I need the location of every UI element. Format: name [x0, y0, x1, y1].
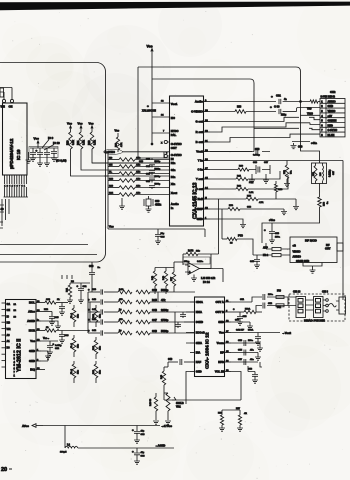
resistor R20 pull-up [67, 122, 75, 150]
left edge stub marks [0, 199, 9, 228]
svg-text:Audio: Audio [195, 100, 203, 104]
wire G out to CN2 [210, 117, 320, 121]
capacitor C31 [271, 94, 310, 105]
capacitor C70 [30, 148, 58, 161]
IC13 pin bubbles [161, 140, 170, 157]
svg-text:Gin: Gin [171, 168, 176, 172]
svg-text:C out: C out [196, 187, 203, 191]
wire opamp out down [222, 269, 224, 283]
svg-text:(IC 9,10): (IC 9,10) [56, 159, 67, 163]
vcc row wire C22 [41, 338, 62, 355]
headphone jack spring [328, 297, 345, 314]
wire audio down x218 [218, 199, 220, 254]
cap C49 bottom [168, 358, 190, 367]
svg-text:C-SYNC: C-SYNC [105, 150, 115, 154]
half pin network [210, 181, 299, 210]
svg-text:RF: RF [326, 243, 330, 247]
capacitor C33 top [210, 148, 270, 157]
C75 cap [233, 308, 247, 325]
svg-text:VR1: VR1 [176, 406, 181, 409]
svg-text:500A: 500A [248, 329, 254, 332]
svg-text:2700p: 2700p [161, 318, 169, 322]
label AVcc left [22, 424, 43, 428]
svg-text:4MHz: 4MHz [155, 204, 162, 207]
capacitor C36 bottom [132, 426, 145, 444]
svg-text:GND: GND [29, 349, 35, 353]
svg-text:NFB: NFB [218, 360, 224, 364]
video encoder IC13 CXA-1145 body [170, 96, 204, 226]
svg-text:PAL: PAL [171, 133, 177, 137]
resistor R27 ladder [108, 170, 170, 175]
svg-text:CXA- 1034 IC 12: CXA- 1034 IC 12 [205, 332, 211, 369]
svg-text:+41a: +41a [311, 141, 317, 145]
svg-text:VOL IN: VOL IN [215, 370, 224, 374]
gnd rows wire [41, 351, 51, 361]
svg-text:+: + [189, 271, 191, 275]
shd row [231, 320, 253, 330]
svg-text:AGND: AGND [27, 319, 35, 323]
IC11 right pin labels [27, 301, 40, 372]
resistor R49 [160, 367, 168, 393]
op-amp U14 LM358 triangle [183, 254, 223, 275]
crystal label XAL [142, 104, 156, 113]
svg-text:RF MOD: RF MOD [305, 239, 318, 243]
resistor R54 row MOR [41, 327, 88, 343]
resistor SL-1 vertical [71, 335, 80, 357]
svg-text:GND: GND [196, 370, 202, 374]
svg-text:XAL28CON: XAL28CON [142, 109, 156, 113]
label Vcc decoupling [34, 137, 40, 149]
svg-text:GND: GND [197, 217, 203, 221]
svg-text:R45: R45 [152, 298, 157, 302]
label (IC 9,10) [56, 159, 67, 163]
svg-text:C-VIDEO: C-VIDEO [191, 110, 203, 114]
IC11 left pin stubs [2, 303, 6, 367]
resistor R21 pull-up [77, 122, 85, 150]
wire R out to CN2 [210, 123, 320, 132]
irq row [41, 369, 45, 371]
svg-text:CN 16: CN 16 [293, 290, 301, 294]
wire avcc line [43, 424, 172, 428]
wire pull-up R22 down [92, 149, 170, 163]
label HEAD PHONE [304, 319, 325, 323]
svg-text:AUDIO: AUDIO [328, 100, 336, 103]
svg-text:5600p: 5600p [155, 184, 161, 186]
svg-text:R58: R58 [237, 107, 242, 109]
IC10 top pin labels [1, 105, 13, 109]
ladder caps C33-C36 [146, 158, 161, 189]
capacitor C65 at RF [250, 255, 260, 268]
nf row [231, 349, 261, 361]
wire below box [0, 0, 1, 1]
headphone connector block 1 [288, 297, 306, 318]
svg-text:AVcc: AVcc [22, 424, 29, 428]
svg-text:3.3k: 3.3k [83, 140, 86, 145]
label LM358 [201, 276, 216, 284]
capacitor C73 [51, 148, 57, 161]
svg-text:PTC: PTC [238, 235, 243, 238]
svg-text:IC 9: IC 9 [48, 136, 54, 140]
resistor R42 [151, 268, 157, 295]
label R46 vertical [149, 393, 159, 424]
svg-text:Vcc: Vcc [67, 122, 72, 126]
svg-text:100µH: 100µH [60, 452, 67, 454]
svg-text:WE: WE [1, 105, 6, 109]
mixing row C42 [88, 308, 195, 315]
scan artifact top black bar [0, 2, 350, 11]
svg-text:C40: C40 [152, 288, 157, 292]
crystal C29 4MHz [144, 196, 162, 212]
svg-text:C-SYNC: C-SYNC [328, 129, 338, 132]
capacitor C72 [44, 148, 50, 166]
svg-text:4R: 4R [244, 412, 247, 415]
svg-text:220µ: 220µ [281, 115, 287, 117]
resistor R26 ladder [108, 163, 170, 168]
resistor R73 [262, 184, 329, 244]
wire ic12 gnd down [186, 372, 190, 405]
trap resistors row2 [210, 171, 280, 184]
svg-text:560A: 560A [245, 308, 251, 311]
RAM IC10 uPD4264AV-12 body [3, 103, 28, 175]
svg-text:47k: 47k [161, 298, 166, 302]
svg-text:3GND: 3GND [196, 320, 203, 324]
RF MOD ground [303, 263, 322, 274]
filter box R72 L30 [312, 163, 327, 184]
capacitor C71 [36, 148, 44, 166]
svg-text:RL-2: RL-2 [71, 368, 73, 374]
svg-text:-: - [189, 264, 190, 268]
IC11 top stubs [62, 275, 72, 279]
trap cluster components [210, 162, 270, 183]
resistor R29 ladder [108, 184, 170, 189]
capacitor C60 [291, 142, 311, 149]
svg-text:INA: INA [196, 351, 201, 355]
agnd row wire [41, 321, 61, 329]
svg-text:SINA: SINA [196, 341, 202, 345]
mixing row R44 [88, 318, 195, 325]
svg-text:C47: C47 [152, 318, 157, 322]
svg-text:C49: C49 [168, 358, 173, 361]
mix caps verticals [175, 312, 186, 328]
resistor R34 vertical [92, 337, 102, 359]
IC10 bottom pins row2 [4, 187, 29, 197]
resistor R56 bottom [218, 410, 240, 431]
svg-text:BLUE: BLUE [328, 134, 335, 137]
svg-text:3.3k: 3.3k [72, 140, 75, 145]
svg-text:ANse: ANse [28, 310, 35, 314]
gnd pin1 wire [210, 219, 246, 228]
svg-text:Vcc: Vcc [115, 129, 120, 133]
svg-text:→AGND: →AGND [155, 444, 165, 448]
IC13 left pin labels [171, 102, 182, 210]
page number [1, 467, 12, 473]
svg-text:OE: OE [7, 309, 11, 312]
svg-text:Bin: Bin [171, 175, 176, 179]
svg-text:100a: 100a [268, 294, 274, 296]
wire B out to CN2 [210, 134, 320, 142]
resistor R77 left [171, 262, 183, 292]
IC12 right pin labels [215, 300, 229, 374]
svg-text:→Vcc2: →Vcc2 [282, 331, 291, 335]
svg-text:Vcc→: Vcc→ [43, 338, 49, 340]
resistor R22 pull-up [88, 122, 96, 150]
label IC-9 pointer [42, 136, 54, 148]
capacitor C40 left [89, 262, 101, 292]
ground left of cluster [26, 152, 32, 163]
svg-text:IRQ: IRQ [30, 368, 35, 372]
wire csync to CN2 [164, 128, 320, 158]
svg-text:MOL: MOL [29, 301, 35, 305]
resistor R24 ladder [108, 191, 170, 196]
label Anse row [41, 309, 59, 325]
resistor R71 on Y line [284, 161, 293, 187]
svg-text:Xin: Xin [171, 182, 176, 186]
ferrite FB2 video [263, 243, 290, 251]
label +Vcc branch [264, 219, 281, 243]
IC13 right pin stubs [204, 102, 211, 220]
wire mid right [204, 229, 206, 237]
svg-text:3.3k: 3.3k [94, 140, 97, 145]
svg-text:GND: GND [328, 105, 334, 108]
svg-text:Vcc: Vcc [147, 45, 153, 49]
svg-text:R2B: R2B [278, 189, 283, 191]
svg-text:Vcc2: Vcc2 [196, 150, 203, 154]
svg-text:IC: IC [7, 315, 10, 318]
FM chip IC11 YM-2612 body [6, 300, 37, 379]
cluster frame [29, 147, 58, 158]
svg-text:SL-1: SL-1 [71, 342, 73, 348]
svg-text:GA: GA [7, 303, 11, 306]
svg-text:+: + [147, 104, 149, 108]
svg-text:CN 8: CN 8 [322, 290, 328, 294]
wire right verticals audio [260, 297, 288, 367]
svg-text:Rin: Rin [171, 161, 176, 165]
svg-text:R20: R20 [67, 140, 70, 145]
svg-text:RL-1: RL-1 [71, 312, 73, 318]
svg-text:5600p: 5600p [161, 288, 169, 292]
thermistor PTC audio [222, 235, 253, 256]
svg-text:OUT B: OUT B [215, 310, 223, 314]
svg-text:8HD: 8HD [218, 320, 223, 324]
svg-text:in: in [171, 206, 174, 210]
volume VR1 [164, 393, 184, 424]
IC12 right pin stubs [225, 302, 232, 372]
svg-text:MOR: MOR [29, 329, 35, 333]
IC10 bottom pins row1 [5, 175, 27, 184]
outA coupling [231, 291, 288, 303]
IC13 right pin labels [191, 99, 208, 221]
svg-text:+: + [271, 95, 273, 99]
headphone dashed box [289, 290, 345, 322]
svg-text:0.047µ: 0.047µ [55, 344, 62, 347]
resistor R43 [155, 268, 174, 295]
svg-text:20: 20 [1, 467, 7, 473]
svg-text:C in: C in [198, 168, 204, 172]
svg-text:OUT: OUT [171, 146, 177, 150]
svg-text:8-PIN DIN-B: 8-PIN DIN-B [321, 95, 336, 99]
wire bus inside box [0, 244, 88, 246]
svg-text:CA2 NF: CA2 NF [236, 329, 245, 332]
wire pull-up R21 down [81, 149, 122, 170]
svg-text:Vcc: Vcc [34, 137, 40, 141]
IC11 left pin labels [7, 303, 17, 377]
svg-text:EDIA: EDIA [196, 310, 202, 314]
ladder left bus [107, 152, 109, 205]
capacitor C39 mid [155, 229, 165, 244]
wire video node to CN2 row3 [297, 108, 321, 112]
svg-text:R out: R out [196, 130, 203, 134]
svg-text:C-26a: C-26a [197, 261, 204, 263]
svg-text:0.001µ: 0.001µ [253, 155, 260, 157]
svg-text:Vcc: Vcc [219, 331, 224, 335]
mixing row R39 [88, 288, 195, 295]
wire volin to VR [164, 393, 241, 400]
wire top bus 1 [138, 67, 301, 142]
capacitor C30 [270, 105, 297, 117]
svg-text:100a: 100a [275, 237, 281, 239]
label +B arrow [311, 141, 317, 145]
audio amp IC12 CXA-1034 body [195, 297, 225, 377]
inductor L2 [60, 426, 174, 454]
op-amp input network box [183, 257, 210, 264]
capacitor C38 bottom [132, 448, 145, 464]
connector CN2 8-PIN DIN-B [320, 90, 345, 137]
svg-text:Vccm: Vccm [217, 341, 225, 345]
svg-text:R21: R21 [77, 140, 80, 145]
svg-text:C40: C40 [89, 265, 94, 268]
svg-text:Y in: Y in [198, 159, 203, 163]
vcc2 row [231, 329, 291, 346]
svg-text:G out: G out [195, 120, 202, 124]
svg-text:+B: +B [293, 244, 297, 248]
resistor R31 and C20 [67, 281, 75, 303]
svg-text:RD: RD [109, 157, 113, 159]
svg-text:C 30: C 30 [274, 105, 280, 109]
svg-text:YM-2612 IC II: YM-2612 IC II [17, 338, 23, 372]
resistor RL-2 vertical [71, 361, 80, 383]
wire CN2 row4 stub [301, 114, 321, 116]
wire MOR to mix [87, 331, 89, 334]
resistor R53 capacitor C23 row MOL [41, 299, 68, 315]
op-amp feedback wire [200, 258, 212, 269]
headphone jack contacts [323, 299, 328, 313]
svg-text:VIDEO: VIDEO [293, 250, 301, 254]
IC12 left pin labels [196, 300, 205, 374]
ladder ground [108, 198, 125, 229]
svg-text:Y out: Y out [196, 177, 203, 181]
svg-text:C48: C48 [152, 308, 157, 312]
svg-text:+Vcc: +Vcc [269, 219, 276, 222]
svg-text:C49: C49 [152, 329, 157, 333]
svg-text:+: + [36, 148, 38, 152]
ferrite FB1 audio [253, 254, 290, 258]
IC13 left pin stubs [92, 101, 170, 177]
wire bus inside box 2 [0, 254, 97, 256]
headphone connector block 2 [306, 297, 324, 318]
svg-text:CN2: CN2 [330, 90, 336, 94]
svg-text:CB6A: CB6A [196, 300, 203, 304]
IC10 top pins [0, 88, 14, 103]
mixing row C43 [88, 298, 195, 305]
wire top bus 2 [152, 79, 254, 152]
wire down x222 [221, 209, 223, 239]
resistor R74 feedback [183, 250, 219, 256]
svg-text:RB: RB [7, 322, 11, 325]
resistor R25 ladder [108, 156, 170, 161]
svg-text:HMF: HMF [197, 207, 203, 211]
svg-text:IC 10: IC 10 [53, 141, 60, 145]
RF MOD box [290, 237, 343, 263]
svg-text:B out: B out [196, 140, 203, 144]
svg-text:NC: NC [171, 116, 175, 120]
svg-text:+: + [270, 105, 272, 109]
svg-text:WR: WR [7, 328, 11, 331]
vccm row [231, 340, 263, 351]
svg-text:GN: GN [109, 164, 113, 166]
svg-text:OUT A: OUT A [216, 300, 224, 304]
svg-text:+5V: +5V [328, 115, 333, 118]
trap resistors row3 [210, 175, 288, 194]
svg-text:RED: RED [328, 124, 333, 127]
wire c-video pin20 [210, 107, 276, 114]
svg-text:NAF: NAF [196, 360, 202, 364]
IC10 bottom pin numbers [4, 184, 26, 187]
resistor R57 bottom [236, 408, 247, 431]
wire audio out pin9 [210, 101, 276, 103]
svg-text:0.222µ: 0.222µ [329, 169, 332, 177]
svg-text:GREEN: GREEN [328, 120, 337, 123]
nfb row [231, 358, 258, 365]
volin row [231, 366, 258, 400]
label TR9 [307, 108, 312, 111]
svg-text:Xout: Xout [171, 191, 177, 195]
outB coupling [231, 303, 288, 314]
resistor RL-1 vertical [71, 305, 80, 327]
svg-text:OUT: OUT [325, 247, 331, 251]
svg-text:C31: C31 [276, 94, 281, 98]
wire C-SYNC to IC13 [104, 152, 170, 176]
svg-text:µPD4264AV-12: µPD4264AV-12 [9, 138, 14, 169]
svg-text:IC 10: IC 10 [16, 149, 21, 160]
resistor R23 vertical [115, 129, 123, 153]
IC11 right pin stubs [36, 303, 41, 370]
power Vcc top [147, 45, 170, 145]
resistor R59 audio [310, 100, 320, 103]
svg-text:GND: GND [29, 359, 35, 363]
svg-text:ECO+B: ECO+B [196, 331, 205, 335]
svg-text:NF: NF [220, 351, 224, 355]
svg-text:AUDIO: AUDIO [293, 255, 301, 259]
wire right edge vertical [210, 161, 343, 301]
svg-text:TR9: TR9 [307, 108, 312, 111]
svg-text:Vcc: Vcc [89, 122, 94, 126]
resistor R28 ladder [108, 177, 170, 182]
svg-text:IC 14: IC 14 [203, 280, 210, 284]
svg-text:Vcc: Vcc [30, 339, 35, 343]
svg-text:VIDEO: VIDEO [328, 110, 336, 113]
wire Vcc mid [108, 225, 205, 230]
op-amp gnd [191, 275, 197, 282]
svg-text:100a: 100a [248, 340, 254, 342]
svg-text:Vcc: Vcc [78, 122, 83, 126]
shield box outline [0, 63, 106, 263]
mixing row C44 [88, 329, 195, 336]
svg-text:Vcc1: Vcc1 [171, 102, 178, 106]
mixing row verticals [88, 292, 175, 333]
svg-text:Vcc: Vcc [109, 225, 114, 229]
svg-text:HEAD PHONE: HEAD PHONE [304, 319, 325, 323]
wire vertical x138 [138, 67, 170, 163]
